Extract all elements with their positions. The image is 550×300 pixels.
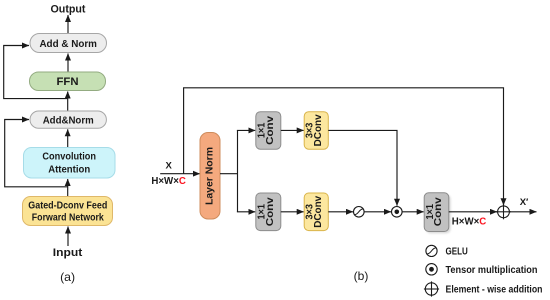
svg-text:C: C (479, 217, 486, 228)
wire LayerNorm output split (220, 173, 238, 175)
block Gated-Dconv Feed Forward Network (23, 197, 113, 226)
legend element-wise addition symbol (424, 281, 439, 296)
svg-text:Add&Norm: Add&Norm (43, 115, 94, 126)
wire arrow to top conv1 (237, 129, 255, 131)
svg-text:(b): (b) (354, 269, 369, 283)
block 3x3 DConv (bottom) (304, 193, 328, 231)
wire arrow conv1 to dconv (bottom) (281, 211, 304, 213)
svg-text:X: X (166, 160, 173, 171)
wire arrow ConvAttention to AddNorm2 (67, 129, 69, 147)
svg-text:Convolution: Convolution (42, 152, 96, 163)
wire arrow GELU to multiply (364, 211, 391, 213)
block 1x1 Conv (output) (424, 193, 450, 234)
svg-text:H×W×: H×W× (452, 217, 480, 228)
svg-text:Output: Output (51, 4, 86, 16)
legend tensor multiplication symbol (426, 264, 437, 275)
wire arrow multiply to conv3 (402, 211, 424, 213)
wire arrow GatedDconv to ConvAttention (67, 179, 69, 197)
wire input X to LayerNorm (160, 173, 200, 175)
block 1x1 Conv (top) (256, 112, 281, 150)
svg-text:Input: Input (53, 247, 83, 259)
svg-text:Forward Network: Forward Network (32, 213, 104, 224)
block 3x3 DConv (top) (304, 112, 328, 150)
svg-text:Tensor multiplication: Tensor multiplication (446, 265, 538, 276)
svg-text:Gated-Dconv Feed: Gated-Dconv Feed (28, 201, 107, 212)
svg-text:GELU: GELU (446, 246, 468, 257)
wire top branch to multiply node (328, 130, 397, 205)
node GELU activation (354, 207, 365, 218)
svg-text:Element - wise addition: Element - wise addition (446, 284, 543, 295)
svg-text:Conv: Conv (265, 116, 276, 145)
wire arrow AddNorm2 to FFN (67, 92, 69, 112)
wire arrow conv3 to elementwise add (449, 211, 497, 213)
svg-text:C: C (179, 176, 186, 187)
svg-text:Add & Norm: Add & Norm (39, 39, 97, 50)
svg-text:Conv: Conv (265, 197, 276, 226)
wire skip connection 1 (4, 46, 68, 99)
svg-text:DConv: DConv (313, 196, 324, 228)
wire long residual skip to elementwise add (184, 88, 504, 205)
node element-wise addition (496, 204, 511, 219)
wire arrow to bottom conv1 (237, 211, 255, 213)
block 1x1 Conv (bottom) (256, 193, 281, 231)
wire arrow AddNorm1 to Output (67, 15, 69, 34)
svg-text:DConv: DConv (313, 114, 324, 146)
svg-text:Conv: Conv (433, 197, 444, 226)
legend GELU symbol (426, 245, 437, 256)
wire arrow conv1 to dconv (top) (281, 129, 304, 131)
block Add & Norm (top) (30, 34, 107, 53)
wire arrow dconv to GELU (328, 211, 353, 213)
block Convolution Attention (24, 148, 116, 179)
block Add&Norm (second) (30, 111, 106, 128)
svg-text:X′: X′ (520, 197, 529, 208)
wire arrow FFN to AddNorm1 (67, 54, 69, 73)
svg-text:Attention: Attention (48, 165, 90, 176)
wire arrow Input to GatedDconv (67, 227, 69, 247)
block Layer Norm (200, 133, 220, 220)
wire skip connection 2 (5, 120, 68, 187)
svg-text:H×W×: H×W× (151, 176, 179, 187)
block FFN (30, 72, 106, 91)
node tensor multiplication (392, 207, 403, 218)
svg-text:(a): (a) (60, 270, 75, 284)
wire output arrow X' (509, 211, 536, 213)
svg-text:FFN: FFN (57, 76, 79, 88)
svg-text:Layer Norm: Layer Norm (205, 147, 216, 205)
